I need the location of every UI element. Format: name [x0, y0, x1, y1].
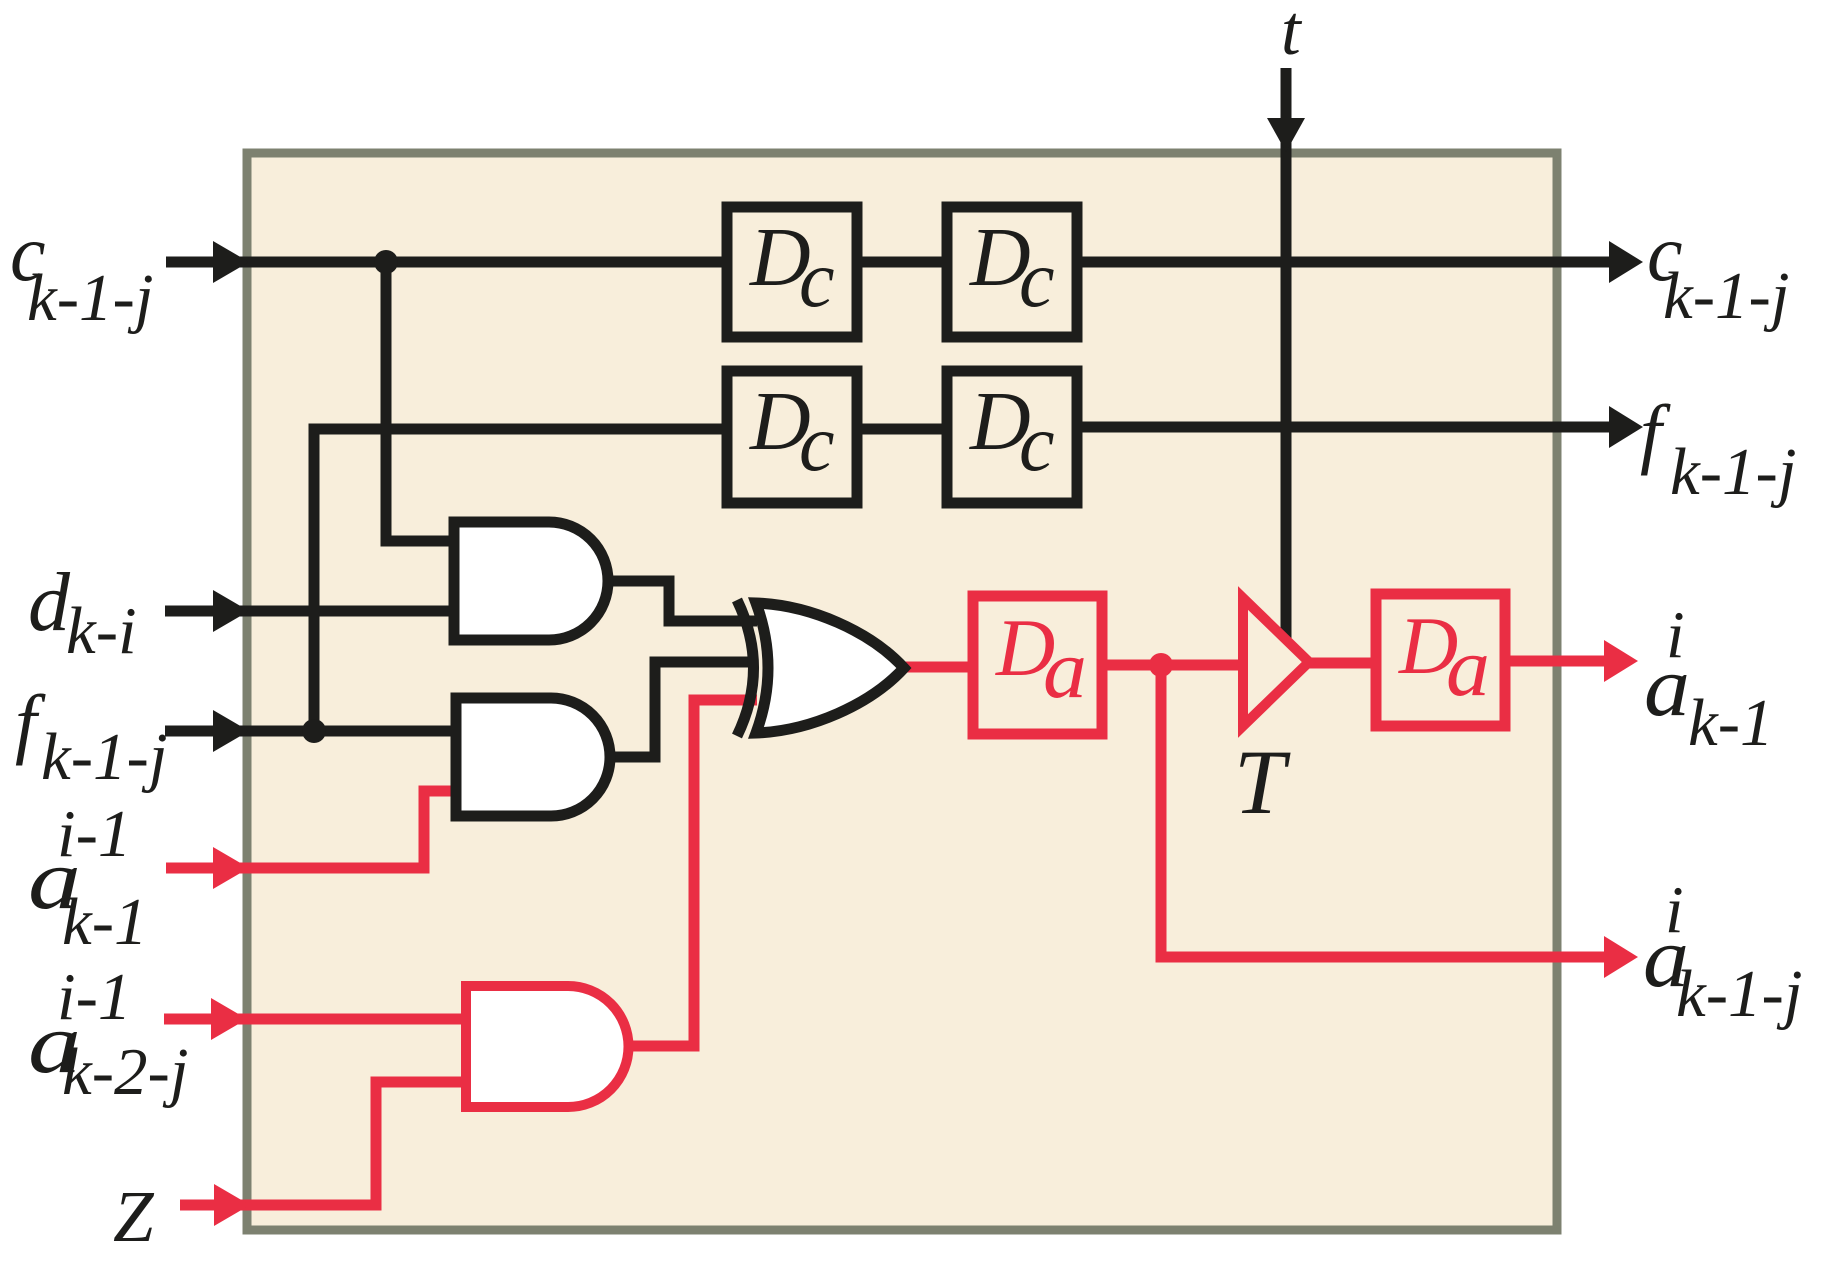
- svg-text:t: t: [1281, 0, 1303, 70]
- wire red a k-2-j input: [164, 1014, 466, 1025]
- svg-text:a: a: [1446, 621, 1490, 714]
- svg-text:k-2-j: k-2-j: [62, 1035, 188, 1109]
- wire junction down to AND1 top input: [386, 262, 454, 541]
- wire red Da1 to T buffer: [1102, 660, 1243, 671]
- svg-text:c: c: [1019, 400, 1055, 488]
- wire AND1 output to XOR: [608, 581, 757, 621]
- wire red a k-1 input: [166, 791, 456, 868]
- svg-text:k-1-j: k-1-j: [1663, 259, 1789, 333]
- node junction on f line: [302, 719, 326, 743]
- input arrowhead d: [213, 590, 249, 632]
- wire red AND3 output to XOR: [628, 700, 757, 1046]
- wire AND2 output to XOR: [610, 662, 757, 757]
- svg-text:k-i: k-i: [66, 594, 137, 668]
- register Dc3: [727, 371, 857, 503]
- AND gate G2: [456, 698, 610, 816]
- svg-text:d: d: [28, 556, 71, 649]
- register Dc2: [947, 207, 1077, 337]
- wire red junction down to a k-1-j output: [1161, 665, 1604, 957]
- wire c output: [1077, 257, 1614, 268]
- wire f input: [165, 726, 456, 737]
- wire c input horizontal: [166, 257, 732, 268]
- red arrowhead a k-2-j: [211, 998, 247, 1040]
- register Da1 (red): [973, 596, 1102, 734]
- AND gate G1: [454, 522, 608, 640]
- node junction on c line: [374, 250, 398, 274]
- wire red Da2 output: [1505, 656, 1604, 667]
- output arrowhead c: [1609, 241, 1643, 283]
- svg-text:k-1-j: k-1-j: [41, 720, 167, 794]
- svg-text:Z: Z: [113, 1176, 155, 1257]
- buffer T (red triangle): [1243, 598, 1309, 726]
- wire d input: [165, 606, 454, 617]
- svg-text:f: f: [1640, 389, 1671, 476]
- red arrowhead a k-1: [213, 847, 249, 889]
- svg-text:k-1-j: k-1-j: [1676, 957, 1802, 1031]
- wire f output: [1077, 422, 1614, 433]
- wire c between Dc boxes: [857, 257, 947, 268]
- register Dc4: [947, 371, 1077, 503]
- input arrowhead f: [213, 710, 249, 752]
- AND gate G3 (red): [466, 986, 629, 1107]
- svg-text:k-1: k-1: [62, 885, 148, 959]
- cell background box: [247, 153, 1557, 1230]
- svg-text:k-1-j: k-1-j: [27, 261, 153, 335]
- svg-text:k-1: k-1: [1688, 686, 1774, 760]
- svg-text:c: c: [799, 236, 835, 324]
- node red junction: [1149, 653, 1173, 677]
- wire red T to Da2: [1309, 658, 1376, 669]
- wire red XOR output to Da1: [902, 662, 973, 673]
- wire red Z input: [180, 1082, 466, 1205]
- red arrowhead Z: [214, 1184, 250, 1226]
- input arrowhead c: [213, 241, 249, 283]
- red output arrowhead a k-1: [1604, 640, 1638, 682]
- svg-text:a: a: [1644, 638, 1690, 734]
- wire t vertical: [1281, 68, 1292, 642]
- svg-text:c: c: [1019, 236, 1055, 324]
- output arrowhead f: [1609, 406, 1643, 448]
- wire f between Dc boxes: [857, 424, 947, 435]
- XOR input arc: [737, 600, 754, 736]
- register Dc1: [727, 207, 857, 337]
- red output arrowhead a k-1-j: [1604, 936, 1638, 978]
- t arrowhead at box edge: [1267, 118, 1305, 152]
- svg-text:k-1-j: k-1-j: [1670, 435, 1796, 509]
- svg-text:c: c: [799, 400, 835, 488]
- XOR gate body: [756, 603, 904, 733]
- register Da2 (red): [1376, 594, 1505, 726]
- svg-text:T: T: [1234, 731, 1291, 833]
- svg-text:a: a: [1043, 623, 1087, 716]
- wire f-row left segment: [314, 429, 732, 731]
